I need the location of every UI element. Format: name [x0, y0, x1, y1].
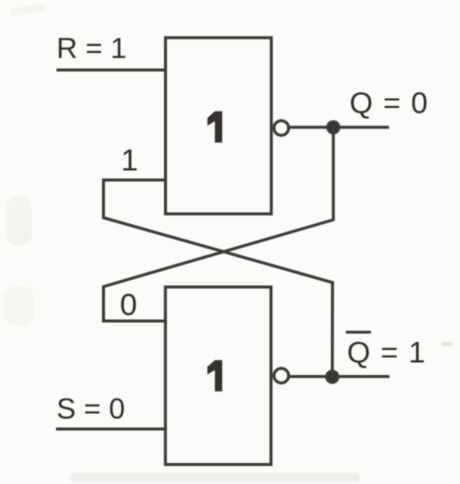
faint scan smudge top-left — [10, 4, 47, 17]
wire S input — [58, 428, 166, 431]
NOR gate U1 label "1" — [207, 111, 222, 142]
inversion bubble U1 output — [274, 121, 289, 136]
faint scan tick right edge — [441, 342, 453, 346]
faint scan smudge left edge — [6, 196, 32, 246]
wire feedback from node Q-bar to U1 input (vertical, diagonal, vertical) — [104, 180, 333, 377]
wire R input — [58, 69, 166, 72]
inversion bubble U2 output — [274, 368, 289, 383]
node Q-bar junction — [327, 371, 339, 383]
svg-text:S = 0: S = 0 — [57, 393, 126, 425]
wire U2 upper input horizontal — [104, 320, 166, 323]
node Q junction — [328, 122, 340, 134]
faint scan smudge left lower — [4, 286, 34, 326]
svg-text:Q = 0: Q = 0 — [350, 87, 429, 120]
svg-text:1: 1 — [121, 142, 138, 177]
wire feedback from node Q to U2 input (vertical, diagonal, vertical) — [104, 127, 334, 321]
NOR gate U2 label "1" — [207, 360, 222, 391]
NOR gate U1 (top) body — [166, 38, 272, 214]
wire U1 lower input horizontal — [104, 179, 166, 182]
NOR gate U2 (bottom) body — [165, 287, 271, 465]
wire Q output — [289, 126, 388, 129]
overbar of Q-bar — [347, 331, 369, 334]
svg-text:R = 1: R = 1 — [57, 33, 127, 65]
svg-text:0: 0 — [120, 287, 137, 322]
svg-text:Q = 1: Q = 1 — [347, 336, 426, 369]
faint scan smudge bottom — [70, 473, 360, 482]
wire Q-bar output — [289, 375, 388, 378]
